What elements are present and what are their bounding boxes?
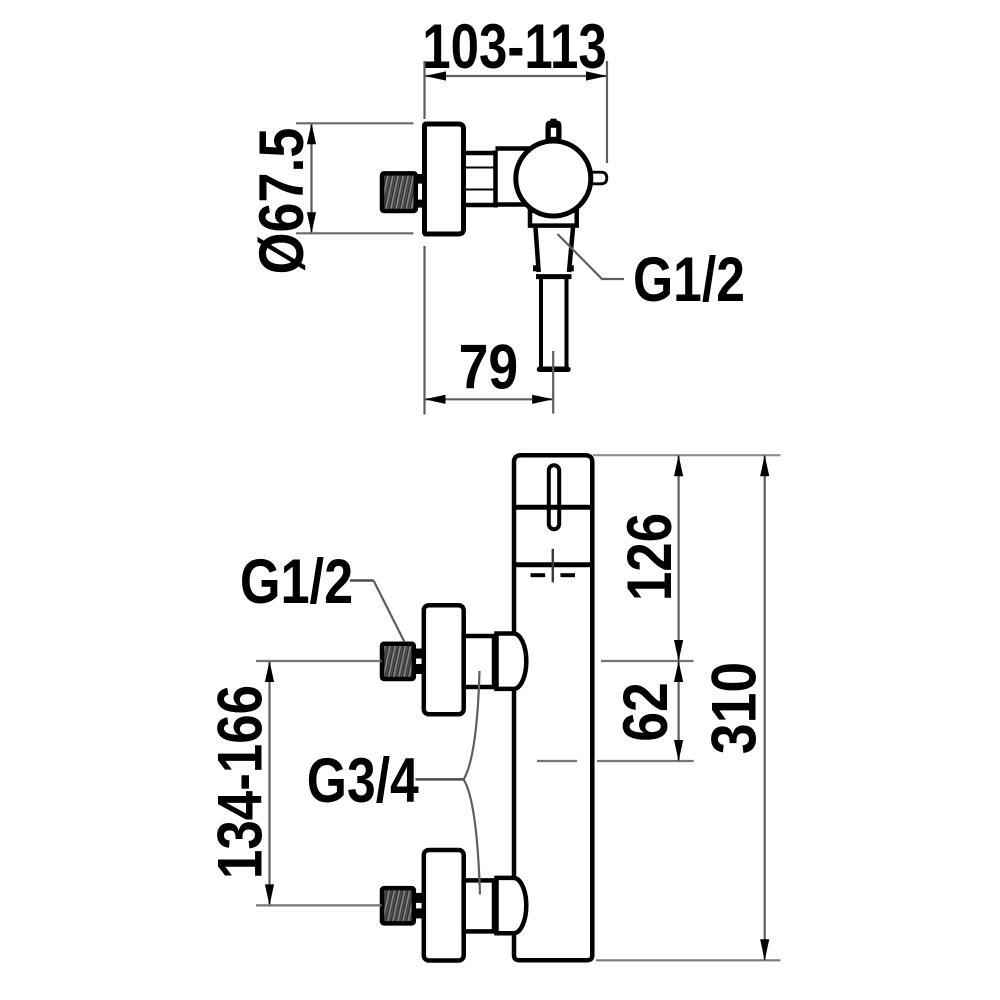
body section B between section A and valve [496,149,531,205]
top inlet: hex nut [464,636,494,687]
svg-text:126: 126 [615,513,685,601]
dim line 310 [764,455,766,960]
ext line bottom of 67.5 [296,232,414,234]
outlet taper [536,228,539,272]
svg-text:G1/2: G1/2 [633,245,745,315]
bottom inlet: hex nut [464,880,494,931]
ext dash hose axis inside body [537,760,577,762]
ext line body bottom right [596,959,781,961]
outlet junction line [536,274,572,279]
wall flange (side view) [425,124,464,234]
body section A between flange and valve [464,151,498,208]
svg-text:103-113: 103-113 [422,12,606,82]
leader line G1/2 top [558,234,625,279]
leader dash G3/4 [416,778,464,781]
outlet circlip bumps [533,265,538,271]
ext line right of 79 (spout axis) [552,351,554,414]
outlet pipe bottom cap [540,367,569,373]
bottom inlet: wall rosette [424,850,464,961]
outlet pipe [539,279,543,367]
svg-text:Ø67.5: Ø67.5 [247,128,317,275]
temperature stem on top of valve [546,119,562,145]
leader curve G3/4 down [464,779,480,894]
leader line G1/2 bottom [350,579,374,582]
leader curve G3/4 up [464,671,480,779]
handle knob (knurled, side view) [382,173,416,211]
svg-text:G3/4: G3/4 [307,746,419,816]
svg-text:62: 62 [611,682,681,742]
dim line 134-166 [268,661,270,905]
dim line 79 [425,398,554,400]
bottom inlet: stem teeth [414,893,423,903]
dim line 103-113 [425,75,607,77]
top inlet: knurled knob [382,644,414,679]
ext line top inlet axis left [256,660,382,662]
ext line hose axis right [597,760,694,762]
dim line 126 [677,455,679,661]
svg-text:134-166: 134-166 [205,685,275,879]
main body column [514,455,592,960]
hose nipple nub right of valve [592,172,607,184]
ext line right of 103-113 [606,61,608,163]
top inlet: dome cap [497,634,527,689]
top inlet: wall rosette [424,605,464,714]
ext line top of 67.5 [296,122,414,124]
bottom inlet: dome cap [497,878,527,933]
handle stem teeth [415,174,423,184]
bottom inlet: knurled knob [382,888,414,923]
valve body circle [516,141,591,216]
ext line left of 103-113 [423,61,425,119]
hose outlet center tick [552,549,554,583]
top inlet: stem teeth [414,649,423,659]
body top separation line [514,505,592,510]
svg-text:G1/2: G1/2 [240,548,353,618]
svg-text:310: 310 [698,662,769,754]
dim line 62 [677,661,679,761]
outlet nut band below valve [530,211,577,226]
body second separation line [514,562,592,567]
svg-text:79: 79 [459,332,519,402]
dim line 67.5 [310,123,312,233]
ext line bottom inlet axis left [256,904,382,906]
lever slot [549,465,559,529]
ext line body top right [593,454,781,456]
ext line top inlet axis right [601,660,694,662]
ext line left of 79 [423,246,425,415]
